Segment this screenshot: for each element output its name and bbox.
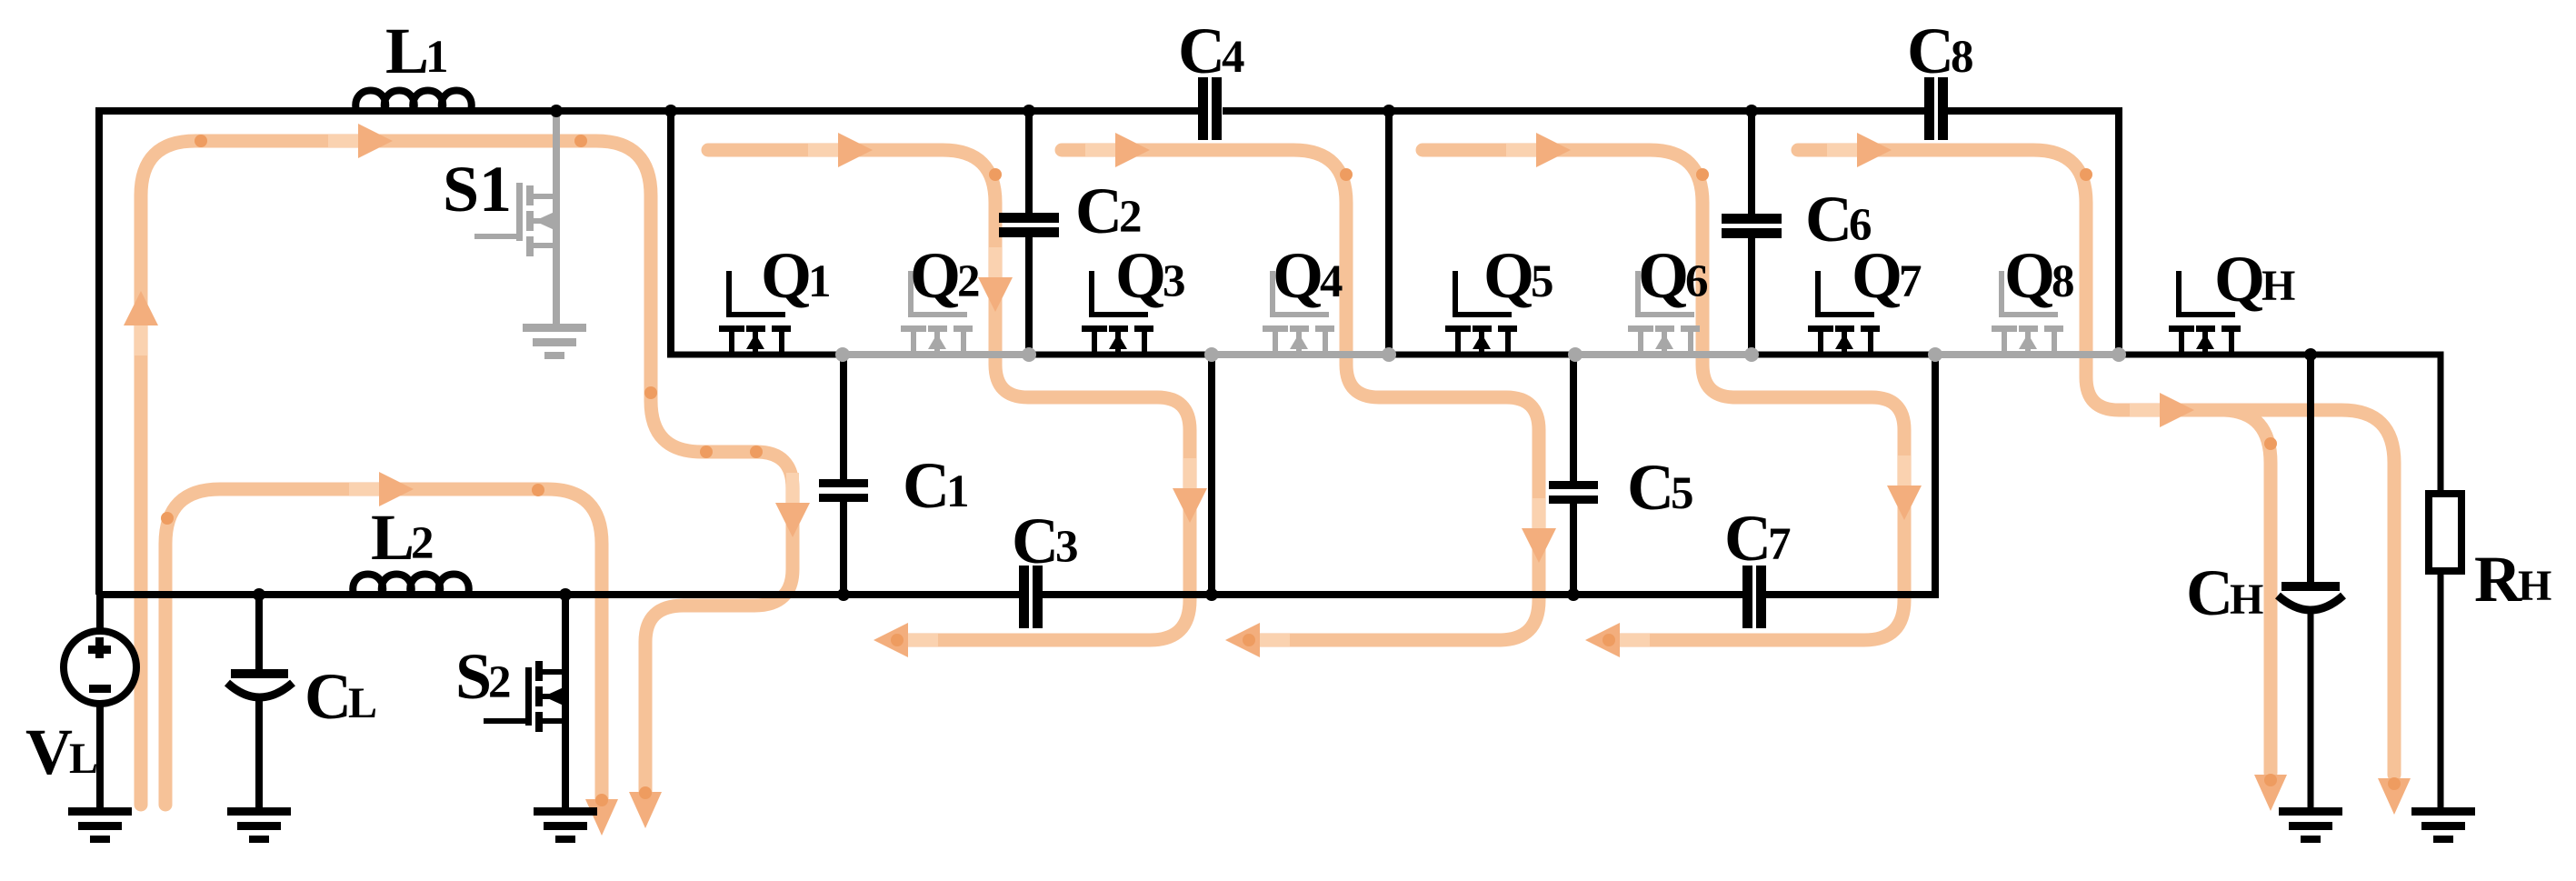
junction QH source / CH / RH node [2304,348,2317,361]
capacitor C6 plates [1722,214,1782,238]
ground for S1 (gray) [523,324,586,359]
capacitor CH curved plate [2278,596,2343,610]
wire row segment Q7 (black) [1752,352,1935,358]
capacitor C1 plates [819,479,868,502]
wire current-flow stage loop 2 (C4-C3-C5) [1062,150,1539,640]
capacitor CL column upper [255,595,263,670]
transistor Q5 [1445,271,1517,352]
capacitor C7 (series, bottom rail) [1742,566,1766,628]
ground for CL [227,807,291,843]
ground for CH [2279,807,2342,843]
voltage source VL circle [64,631,136,704]
ground for RH [2411,807,2475,843]
capacitor CL top plate [231,669,288,678]
wire Q1 drain column [667,111,674,355]
junction node Q7-Q8 (gray) [1928,347,1942,362]
capacitor C1 column lower [840,502,847,595]
junction node Q4-Q5 (gray) [1382,347,1396,362]
switch S1 (MOSFET, gray) [474,113,560,327]
wire row segment QH (black) with corner to RH [2119,355,2441,496]
junction S2 drain on bottom rail [559,588,572,601]
flow arrow cap dots [891,634,904,646]
capacitor C4 (series, top rail) [1198,77,1222,140]
wire top rail middle segment [1223,107,1926,115]
capacitor C2 column lower [1025,237,1033,355]
capacitor C5 column lower [1570,504,1577,595]
wire current-flow stage loop 1 (C2-C1-C3) [708,150,1190,640]
wire row segment Q8 (gray) [1935,351,2121,358]
wire current-flow stage loop 3 (C6-C5-C7) [1423,150,1904,640]
wire current-flow loop A (VL-L1-S1 path) [141,141,793,805]
junction C4/Q5 column on top rail [1383,105,1395,117]
wire bottom rail segment 1 [99,591,1022,598]
capacitor CH column lower [2308,611,2314,811]
wire Q3/Q4 node column [1208,355,1215,595]
transistor Q6 (gray) [1628,271,1700,352]
inductor L2 [353,575,468,596]
voltage source VL wire bottom [96,704,104,811]
junction node Q2-Q3 / C2 (gray) [1022,347,1036,362]
wire RH to ground [2438,572,2444,811]
capacitor C8 (series, top rail) [1924,77,1948,140]
flow joint dots [195,135,207,147]
wire current-flow stage loop 4 (C8-QH-RH) [1798,150,2394,775]
wire current-flow branch to CH [2224,410,2271,773]
junction C6 column on top rail [1745,105,1758,117]
flow arrowheads [135,324,147,355]
capacitor CL curved plate [227,683,293,697]
capacitor C6 column lower [1748,238,1755,355]
junction node Q5-Q6 / C5 (gray) [1568,347,1583,362]
switch S2 (MOSFET, black) [484,595,569,811]
wire CH column upper [2307,355,2314,583]
capacitor C2 plates [999,213,1059,237]
voltage source VL minus sign [89,685,111,693]
junction node Q6-Q7 / C6 (gray) [1744,347,1759,362]
wire left vertical (VL+ to L1) [95,107,103,595]
wire current-flow loop B (VL-L2-S2 path) [165,489,602,805]
wire C4/Q5 column [1385,111,1393,355]
junction S1 drain on top rail [550,105,563,117]
voltage source VL plus sign [88,637,111,658]
capacitor C1 column upper [840,355,847,480]
junction Q1 drain column on top rail [664,105,677,117]
wire row segment Q6 (gray) [1575,351,1752,358]
wire row segment Q2 (gray) [843,351,1029,358]
wire top rail left segment [99,107,1198,115]
capacitor C5 plates [1549,481,1598,504]
capacitor CL column lower [255,698,263,811]
wire row segment Q3 (black) [1029,352,1212,358]
transistor Q2 (gray) [901,271,973,352]
junction CL on bottom rail [253,588,265,601]
transistor QH [2169,271,2241,352]
junction C1 on bottom rail [837,588,850,601]
capacitor C3 (series, bottom rail) [1019,566,1043,628]
wire bottom rail segment 2 [1041,591,1745,598]
wire row segment Q5 (black) [1389,352,1575,358]
capacitor CH top plate [2281,582,2340,591]
svg-text:S1: S1 [443,153,512,225]
resistor RH box [2429,494,2461,571]
junction node Q3-Q4 (gray) [1204,347,1219,362]
ground for VL [68,807,132,843]
voltage source VL wire top [96,595,104,631]
junction C2 column on top rail [1023,105,1035,117]
transistor Q3 [1082,271,1153,352]
transistor Q1 [719,271,791,352]
junction Q3/Q4 column on bottom rail [1205,588,1218,601]
inductor L1 [355,91,471,112]
capacitor C6 column upper [1748,111,1755,215]
junction node Q1-Q2 (gray) [835,347,850,362]
capacitor C5 column upper [1570,355,1577,482]
transistor Q4 (gray) [1263,271,1334,352]
ground for S2 [534,807,597,843]
wire bottom rail segment 3 with corner up [1764,355,1935,595]
wire row segment Q1 (black) [667,352,843,358]
wire row segment Q4 (gray) [1212,351,1389,358]
junction node Q8-QH (gray) [2112,347,2126,362]
capacitor C2 column upper [1025,111,1033,214]
transistor Q7 [1808,271,1880,352]
transistor Q8 (gray) [1992,271,2063,352]
junction C5 on bottom rail [1567,588,1580,601]
wire top rail right segment with corner down [1946,111,2119,355]
